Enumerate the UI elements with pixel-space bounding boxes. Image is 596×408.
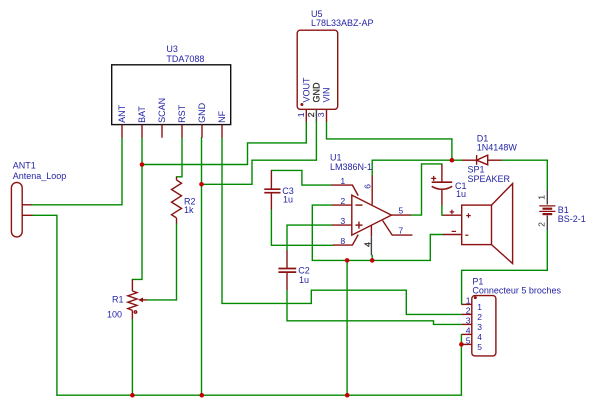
svg-text:1: 1 (466, 295, 471, 305)
svg-text:3: 3 (466, 315, 471, 325)
svg-text:GND: GND (197, 102, 207, 123)
svg-text:Connecteur 5 broches: Connecteur 5 broches (472, 286, 561, 296)
svg-text:U3: U3 (166, 44, 178, 54)
svg-text:5: 5 (466, 335, 471, 345)
svg-text:8: 8 (340, 236, 345, 246)
svg-text:5: 5 (477, 342, 482, 352)
svg-text:ANT1: ANT1 (13, 161, 36, 171)
svg-text:100: 100 (107, 310, 122, 320)
svg-text:SPEAKER: SPEAKER (468, 174, 511, 184)
svg-text:1k: 1k (184, 205, 194, 215)
svg-text:4: 4 (466, 325, 471, 335)
svg-text:6: 6 (363, 184, 373, 189)
svg-text:BS-2-1: BS-2-1 (558, 214, 586, 224)
svg-text:2: 2 (306, 112, 316, 117)
svg-text:3: 3 (316, 112, 326, 117)
svg-text:1: 1 (340, 176, 345, 186)
svg-text:5: 5 (398, 206, 403, 216)
svg-text:1N4148W: 1N4148W (477, 142, 518, 152)
svg-text:2: 2 (537, 222, 547, 227)
svg-text:4: 4 (362, 242, 372, 247)
svg-text:1: 1 (296, 112, 306, 117)
svg-text:4: 4 (477, 332, 482, 342)
svg-text:1: 1 (537, 195, 547, 200)
svg-text:1: 1 (477, 302, 482, 312)
svg-text:2: 2 (477, 312, 482, 322)
svg-text:TDA7088: TDA7088 (166, 54, 204, 64)
svg-text:2: 2 (340, 196, 345, 206)
svg-text:SCAN: SCAN (157, 98, 167, 123)
svg-text:1u: 1u (283, 195, 293, 205)
svg-text:GND: GND (312, 82, 322, 103)
svg-text:R1: R1 (112, 295, 124, 305)
svg-text:3: 3 (340, 216, 345, 226)
svg-text:VIN: VIN (322, 87, 332, 102)
svg-text:RST: RST (177, 104, 187, 123)
svg-text:ANT: ANT (117, 104, 127, 123)
svg-text:7: 7 (398, 226, 403, 236)
svg-text:1u: 1u (456, 189, 466, 199)
svg-text:NF: NF (217, 110, 227, 122)
svg-text:2: 2 (466, 305, 471, 315)
svg-text:3: 3 (477, 322, 482, 332)
svg-text:C2: C2 (298, 265, 310, 275)
svg-text:BAT: BAT (137, 106, 147, 123)
svg-text:VOUT: VOUT (302, 77, 312, 103)
svg-text:L78L33ABZ-AP: L78L33ABZ-AP (311, 18, 374, 28)
svg-text:1u: 1u (299, 275, 309, 285)
svg-text:Antena_Loop: Antena_Loop (13, 171, 67, 181)
svg-text:U1: U1 (330, 152, 342, 162)
svg-text:LM386N-1: LM386N-1 (330, 162, 372, 172)
